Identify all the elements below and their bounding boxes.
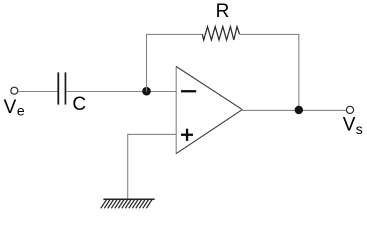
wire top left to resistor — [146, 33, 203, 35]
ground — [101, 199, 155, 208]
non-inverting input plus sign — [181, 129, 193, 141]
svg-text:C: C — [72, 94, 86, 115]
wire non-inverting input — [128, 133, 177, 135]
wire output — [242, 109, 346, 111]
svg-text:e: e — [17, 103, 25, 119]
svg-text:s: s — [356, 121, 363, 137]
svg-text:R: R — [216, 1, 230, 22]
terminal Ve — [11, 87, 18, 94]
node B junction — [295, 106, 303, 114]
op-amp U1 — [176, 66, 242, 154]
wire feedback left vertical — [146, 34, 148, 92]
wire feedback right vertical — [298, 34, 300, 110]
wire capacitor to inverting input — [66, 91, 176, 93]
inverting input minus sign — [181, 90, 196, 92]
capacitor C — [57, 72, 66, 104]
svg-text:V: V — [343, 115, 356, 136]
resistor R — [202, 27, 239, 40]
wire resistor to right — [240, 33, 299, 35]
wire to ground — [127, 134, 129, 199]
node A junction — [142, 87, 151, 96]
terminal Vs — [346, 106, 353, 113]
wire input to capacitor — [18, 91, 58, 93]
svg-text:V: V — [4, 97, 17, 118]
